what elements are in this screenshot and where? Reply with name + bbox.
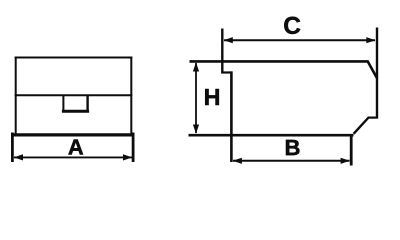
dimension A left arrowhead [14,154,23,160]
dimension label H [205,89,219,105]
label pocket bottom edge [62,110,89,113]
dimension H down arrowhead [193,125,199,134]
dimension C right arrowhead [366,37,375,43]
front view top edge [15,57,133,59]
dimension B right arrowhead [341,158,350,164]
dimension H up arrowhead [193,62,199,71]
side view front top slant [367,61,377,79]
label pocket left edge [62,95,64,111]
front view left wall [15,57,17,135]
side view bottom chamfer [354,117,369,134]
dimension label A [68,140,83,155]
dimension A line [14,156,132,158]
front view rim divider line [15,94,133,96]
side view rear wall upper / dimension C left extension [221,29,223,74]
side view rear lip step [221,71,232,73]
dimension A right extension line [132,133,135,163]
dimension B right extension line [350,135,353,166]
dimension B line [233,160,350,162]
dimension A right arrowhead [123,154,132,160]
front view right wall [130,57,132,135]
label pocket right edge [86,95,88,111]
dimension label B [286,140,299,155]
dimension C line [224,39,375,41]
side view top edge [190,60,369,63]
side view rear wall lower / dimension B left extension [230,71,233,162]
dimension B left arrowhead [233,158,242,164]
dimension H line [195,63,197,133]
dimension label C [284,17,300,34]
side view bottom edge [189,134,354,137]
side view front bottom step [368,116,378,118]
front view base edge [12,133,135,136]
side view front wall / dimension C right extension [376,28,378,119]
dimension C left arrowhead [224,37,233,43]
dimension A left extension line [11,133,14,163]
